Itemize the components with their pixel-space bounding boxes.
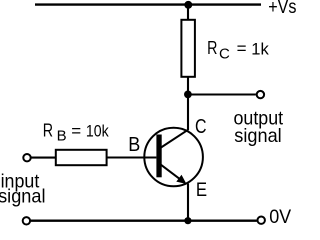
transistor Q1 emitter stroke bbox=[161, 165, 184, 182]
wire RC bottom to junction bbox=[187, 77, 189, 95]
svg-text:B: B bbox=[128, 134, 140, 156]
transistor Q1 collector stroke bbox=[161, 130, 188, 148]
terminal 0V right (open circle) bbox=[258, 217, 265, 224]
svg-text:signal: signal bbox=[0, 186, 46, 208]
svg-text:E: E bbox=[196, 179, 207, 201]
wire input terminal to RB bbox=[31, 157, 56, 159]
resistor RC bbox=[181, 20, 195, 77]
svg-text:1k: 1k bbox=[251, 39, 269, 58]
wire RB to base bbox=[107, 156, 157, 158]
terminal 0V left (open circle) bbox=[23, 217, 30, 224]
svg-text:C: C bbox=[219, 45, 230, 62]
resistor RB bbox=[56, 150, 107, 165]
node junction top (collector rail) bbox=[184, 1, 192, 9]
transistor Q1 emitter arrow bbox=[176, 175, 186, 184]
node junction emitter/0V bbox=[184, 217, 191, 224]
wire +Vs top rail bbox=[35, 3, 261, 5]
svg-text:0V: 0V bbox=[269, 207, 291, 226]
wire 0V bottom rail bbox=[31, 219, 257, 221]
wire junction to output terminal bbox=[188, 93, 256, 95]
svg-text:R: R bbox=[207, 38, 217, 58]
svg-text:B: B bbox=[57, 128, 67, 145]
svg-text:+Vs: +Vs bbox=[268, 0, 296, 18]
node junction collector/output bbox=[184, 91, 192, 99]
svg-text:=: = bbox=[71, 122, 81, 141]
svg-text:R: R bbox=[43, 121, 53, 141]
svg-text:=: = bbox=[237, 39, 247, 58]
transistor Q1 circle bbox=[144, 128, 203, 187]
svg-text:C: C bbox=[195, 116, 207, 138]
wire emitter down to 0V rail bbox=[187, 184, 189, 221]
svg-text:signal: signal bbox=[234, 125, 281, 147]
wire junction down to collector bbox=[187, 95, 189, 131]
wire top rail to RC bbox=[187, 5, 189, 21]
terminal input (open circle) bbox=[23, 154, 30, 161]
transistor Q1 base bar bbox=[156, 135, 161, 178]
svg-text:10k: 10k bbox=[86, 122, 109, 141]
terminal output (open circle) bbox=[257, 91, 264, 98]
